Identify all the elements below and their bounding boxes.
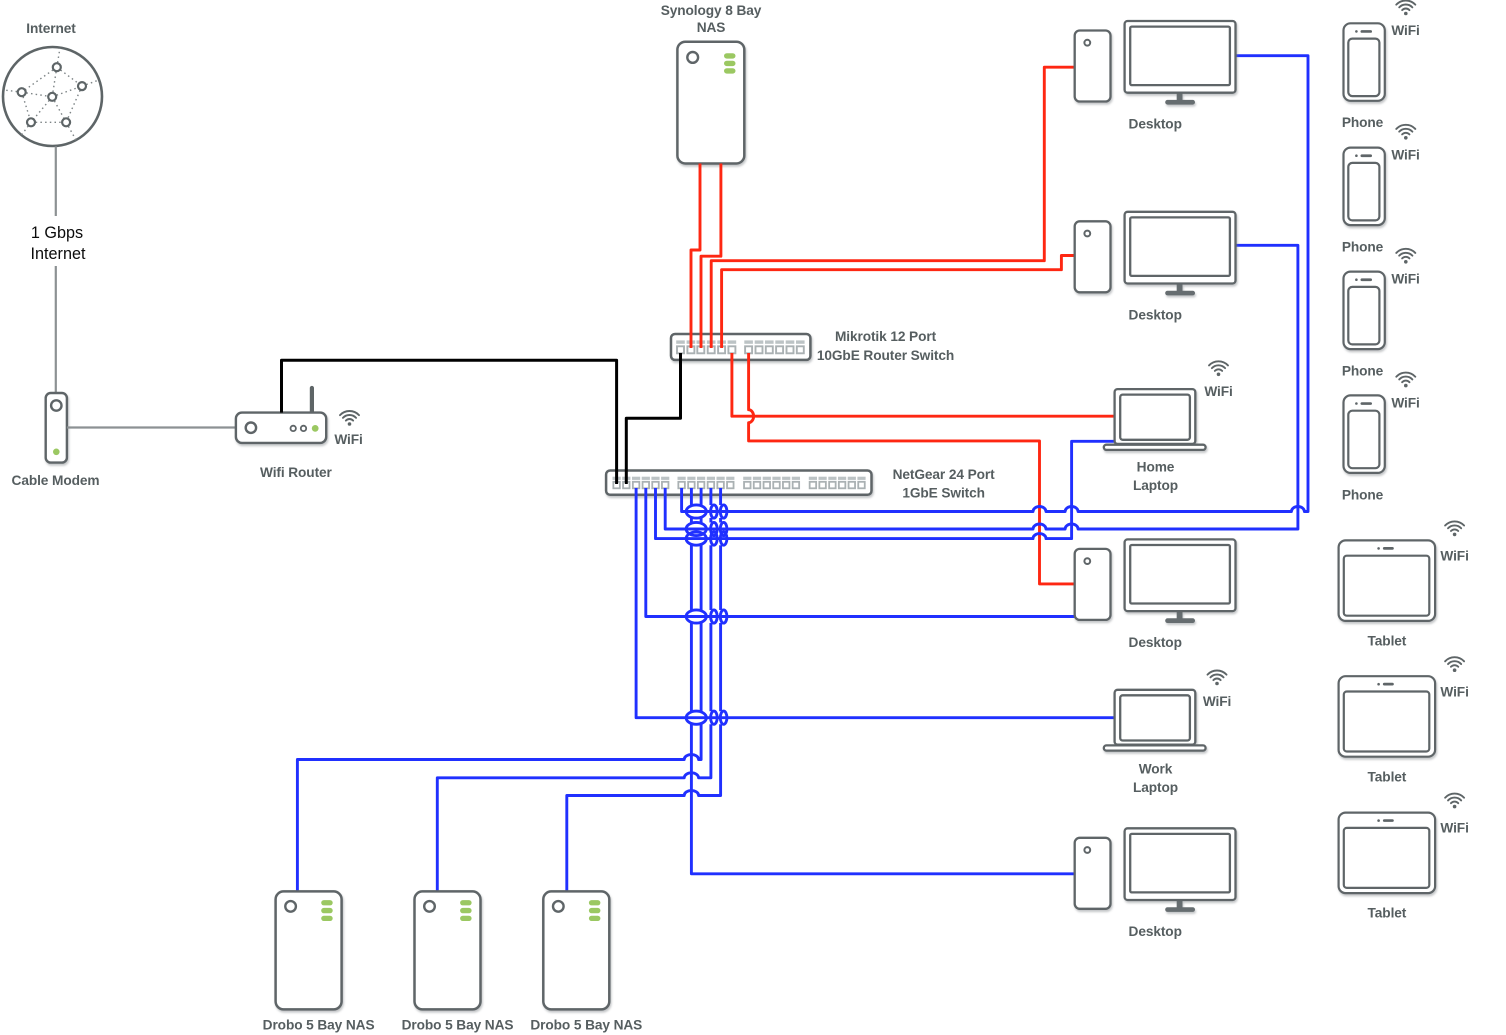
internet cloud: [3, 47, 102, 146]
tablet1: [1339, 540, 1436, 621]
wifi icon phone4: [1396, 373, 1415, 388]
desktop3: [1075, 539, 1236, 623]
wire netgear to work laptop (blue): [636, 488, 1115, 718]
phone2: [1344, 148, 1385, 226]
svg-text:Tablet: Tablet: [1368, 769, 1407, 784]
svg-text:WiFi: WiFi: [1203, 694, 1231, 709]
svg-text:WiFi: WiFi: [1391, 148, 1419, 163]
svg-text:Phone: Phone: [1342, 115, 1384, 130]
svg-text:WiFi: WiFi: [1440, 549, 1468, 564]
svg-text:Synology 8 Bay: Synology 8 Bay: [661, 3, 762, 18]
synology 8 bay nas: [677, 42, 744, 164]
mikrotik 12 port switch: [671, 334, 810, 360]
svg-text:Phone: Phone: [1342, 240, 1384, 255]
wifi icon work laptop: [1208, 671, 1227, 686]
wifi icon router: [340, 411, 359, 426]
wire netgear to drobo1 (blue): [297, 488, 701, 891]
svg-text:NAS: NAS: [697, 20, 726, 35]
desktop1: [1075, 21, 1236, 105]
wire netgear to home laptop (blue): [656, 441, 1115, 538]
svg-text:Work: Work: [1139, 762, 1173, 777]
wire mikrotik to desktop3 tower (red) with hop: [749, 353, 1075, 584]
tablet2: [1339, 676, 1436, 757]
svg-text:Desktop: Desktop: [1129, 117, 1182, 132]
svg-text:10GbE Router Switch: 10GbE Router Switch: [817, 348, 954, 363]
wifi icon phone2: [1396, 125, 1415, 140]
wifi router antenna: [310, 388, 314, 413]
wire mikrotik to netgear (black): [626, 353, 680, 484]
drobo3: [543, 891, 609, 1009]
svg-text:NetGear 24 Port: NetGear 24 Port: [893, 467, 996, 482]
svg-text:Tablet: Tablet: [1368, 634, 1407, 649]
wifi icon home laptop: [1209, 361, 1228, 376]
wifi icon tablet2: [1445, 657, 1464, 672]
wire synology left to mikrotik (red): [691, 164, 700, 349]
svg-text:Desktop: Desktop: [1129, 924, 1182, 939]
drobo1: [276, 891, 342, 1009]
svg-text:WiFi: WiFi: [1440, 684, 1468, 699]
wire synology right to mikrotik (red): [701, 164, 721, 349]
svg-text:Cable Modem: Cable Modem: [12, 473, 100, 488]
wire netgear to drobo3 (blue): [567, 488, 721, 891]
wire mikrotik to desktop2 tower (red): [722, 256, 1075, 349]
drobo2: [415, 891, 481, 1009]
desktop4: [1075, 828, 1236, 912]
wire router to netgear (black): [282, 360, 617, 484]
wire mikrotik to desktop1 tower (red): [711, 67, 1074, 348]
home laptop: [1104, 389, 1206, 450]
svg-text:WiFi: WiFi: [1391, 395, 1419, 410]
cable modem: [46, 393, 67, 463]
svg-text:Drobo 5 Bay NAS: Drobo 5 Bay NAS: [402, 1018, 514, 1033]
wire netgear to drobo2 (blue): [437, 488, 711, 891]
svg-text:Desktop: Desktop: [1129, 635, 1182, 650]
wifi icon tablet3: [1445, 794, 1464, 809]
wire crossing loops cluster: [686, 505, 727, 724]
work laptop: [1104, 690, 1206, 751]
phone1: [1344, 23, 1385, 101]
wire netgear to desktop4 tower (blue): [691, 488, 1074, 874]
wire netgear to desktop2 monitor (blue): [665, 245, 1298, 529]
wifi icon tablet1: [1445, 521, 1464, 536]
svg-text:Drobo 5 Bay NAS: Drobo 5 Bay NAS: [530, 1018, 642, 1033]
wire netgear to desktop1 monitor (blue): [682, 56, 1308, 512]
wire 1gbps text to cable modem: [55, 266, 57, 393]
svg-text:Laptop: Laptop: [1133, 780, 1178, 795]
svg-text:1GbE Switch: 1GbE Switch: [902, 486, 985, 501]
netgear 24 port switch: [606, 471, 871, 495]
svg-text:Mikrotik 12 Port: Mikrotik 12 Port: [835, 329, 937, 344]
svg-text:1 Gbps: 1 Gbps: [31, 224, 83, 242]
svg-text:WiFi: WiFi: [1391, 23, 1419, 38]
svg-text:Drobo 5 Bay NAS: Drobo 5 Bay NAS: [263, 1018, 375, 1033]
svg-text:Internet: Internet: [31, 245, 86, 263]
tablet3: [1339, 813, 1436, 894]
wifi icon phone1: [1396, 1, 1415, 16]
svg-text:WiFi: WiFi: [1391, 272, 1419, 287]
wire internet to 1gbps text: [55, 146, 57, 216]
svg-text:Internet: Internet: [26, 21, 76, 36]
svg-text:WiFi: WiFi: [1204, 384, 1232, 399]
svg-text:WiFi: WiFi: [334, 432, 362, 447]
svg-text:WiFi: WiFi: [1440, 821, 1468, 836]
svg-text:Wifi Router: Wifi Router: [260, 465, 333, 480]
wire modem to router: [67, 426, 236, 428]
phone4: [1344, 395, 1385, 473]
svg-text:Desktop: Desktop: [1129, 308, 1182, 323]
svg-text:Home: Home: [1137, 460, 1175, 475]
phone3: [1344, 272, 1385, 350]
svg-text:Laptop: Laptop: [1133, 478, 1178, 493]
svg-text:Phone: Phone: [1342, 364, 1384, 379]
svg-text:Phone: Phone: [1342, 487, 1384, 502]
desktop2: [1075, 212, 1236, 296]
wire netgear to desktop3 tower (blue): [646, 488, 1075, 617]
wifi icon phone3: [1396, 249, 1415, 264]
wifi router: [236, 413, 326, 443]
svg-text:Tablet: Tablet: [1368, 906, 1407, 921]
wire mikrotik to home laptop (red): [732, 353, 1115, 416]
